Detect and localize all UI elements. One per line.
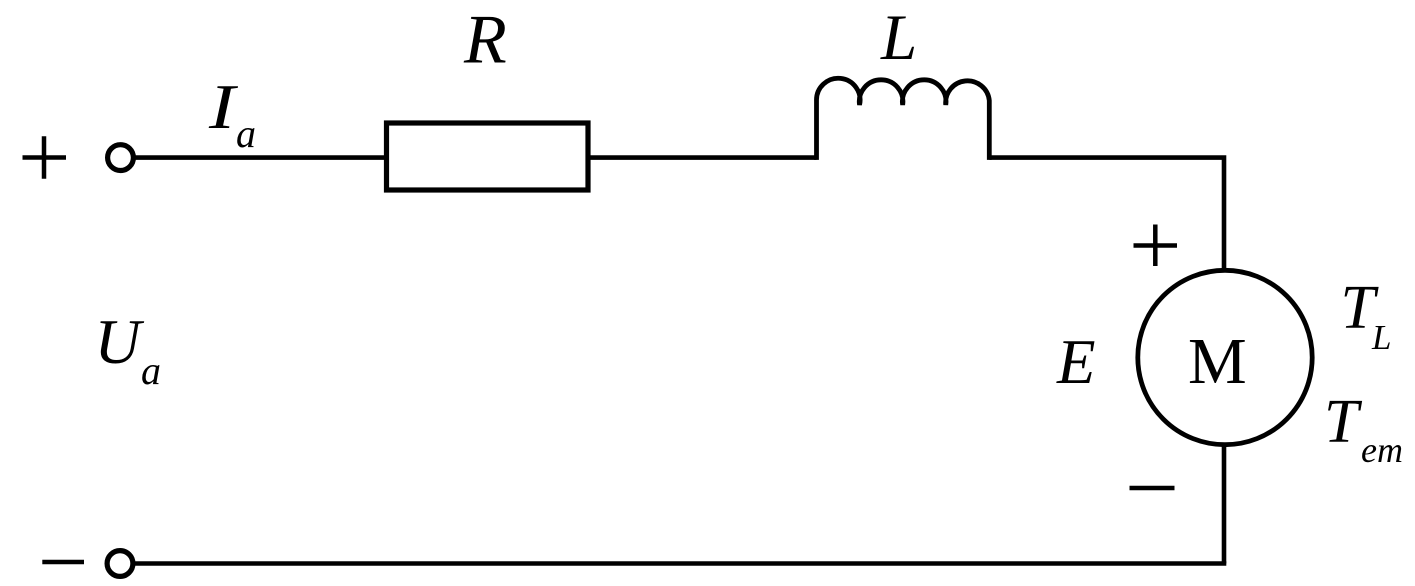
svg-text:U: U — [95, 306, 145, 377]
svg-text:E: E — [1056, 327, 1095, 397]
svg-text:I: I — [208, 72, 239, 142]
resistor R (box) — [387, 123, 589, 190]
motor polarity − — [1130, 486, 1175, 491]
terminal polarity + (source positive) — [23, 136, 67, 178]
svg-text:M: M — [1188, 325, 1247, 398]
terminal polarity − (source negative) — [42, 560, 84, 565]
wire: top terminal to resistor — [133, 155, 386, 160]
inductor L (coil, 4 humps) — [816, 78, 989, 160]
wire: motor bottom down to bottom rail — [1222, 444, 1227, 564]
svg-text:L: L — [880, 2, 917, 74]
motor polarity + — [1134, 225, 1178, 267]
wire: inductor to top-right corner and down to motor — [989, 158, 1224, 272]
svg-text:em: em — [1361, 430, 1403, 470]
svg-text:R: R — [463, 2, 507, 79]
wire: bottom rail — [133, 561, 1226, 566]
wire: resistor to inductor — [588, 155, 817, 160]
node: bottom input terminal circle — [107, 551, 133, 577]
svg-text:a: a — [141, 348, 161, 393]
motor M (machine circle) — [1138, 270, 1312, 444]
node: top input terminal circle — [108, 145, 134, 171]
svg-text:a: a — [236, 111, 256, 156]
svg-text:T: T — [1324, 388, 1363, 456]
svg-text:L: L — [1371, 318, 1391, 357]
